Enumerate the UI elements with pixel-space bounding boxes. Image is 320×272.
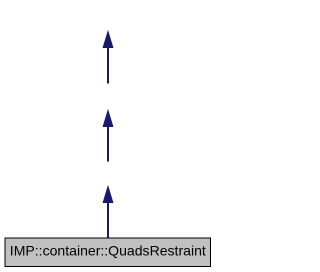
- shaft 1 (wire): [107, 48, 109, 84]
- shaft 3 (wire): [107, 203, 109, 238]
- class node box IMP::container::QuadsRestraint: [5, 238, 212, 268]
- arrowhead 1: [103, 30, 114, 48]
- inheritance arrow 3 (bottom): [103, 185, 114, 238]
- node border: [5, 238, 212, 268]
- shaft 2 (wire): [107, 127, 109, 162]
- svg-text:IMP::container::QuadsRestraint: IMP::container::QuadsRestraint: [10, 243, 206, 258]
- arrowhead 2: [103, 109, 114, 127]
- arrowhead 3: [103, 185, 114, 203]
- node fill: [6, 239, 211, 267]
- inheritance arrow 1 (top): [103, 30, 114, 84]
- inheritance arrow 2 (middle): [103, 109, 114, 162]
